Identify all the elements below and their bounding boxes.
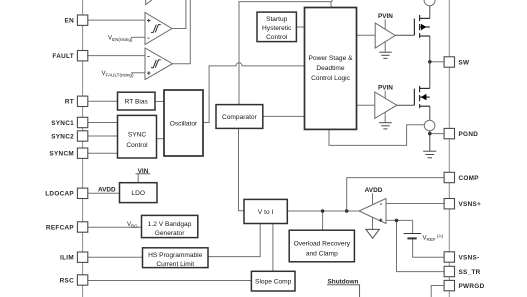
wire SYNCM pin to SYNC Control (88, 152, 118, 154)
wire battery bottom to VSNS- pin (413, 239, 445, 257)
svg-text:SYNC2: SYNC2 (51, 133, 74, 140)
current sense circle low-side (424, 120, 435, 131)
wire RSC pin to Slope Comp (88, 280, 252, 282)
svg-text:Control Logic: Control Logic (311, 75, 351, 82)
block 1.2 V Bandgap Generator (142, 215, 198, 237)
wire low-side driver to ground (384, 112, 386, 123)
svg-text:1.2 V Bandgap: 1.2 V Bandgap (148, 221, 192, 228)
wire high-side source down to SW node (429, 36, 431, 62)
svg-text:SYNC: SYNC (128, 132, 147, 139)
pin square SYNCM (77, 148, 87, 158)
wire Power Stage to high-side driver (357, 34, 376, 36)
svg-text:AVDD: AVDD (98, 187, 116, 194)
wire Comparator bottom to V to I input (239, 128, 245, 210)
block RT Bias (118, 92, 156, 110)
pin square SYNC2 (77, 131, 87, 141)
pin square VSNS+ (444, 199, 454, 209)
svg-text:LDOCAP: LDOCAP (45, 191, 74, 198)
wire ILIM pin to HS current limit (86, 256, 142, 258)
svg-text:VSNS-: VSNS- (459, 254, 480, 261)
pin square LDOCAP (77, 188, 87, 198)
wire amp output node down to Overload Recovery (322, 211, 324, 230)
wire high-side driver to ground (384, 42, 386, 52)
svg-text:FAULT: FAULT (52, 53, 74, 60)
wire low-side drain up to SW node (429, 62, 431, 89)
svg-text:RT Bias: RT Bias (125, 99, 149, 106)
svg-text:Shutdown: Shutdown (328, 279, 359, 286)
svg-text:VFAULT(rising): VFAULT(rising) (102, 71, 134, 78)
pin square VSNS- (444, 252, 454, 262)
wire VREF node down to battery top (412, 220, 414, 233)
svg-text:+: + (379, 218, 383, 225)
wire sense circle to PGND node and ground (429, 131, 431, 151)
wire SYNC Control to Oscillator (157, 138, 165, 140)
wire VEN(rising) to EN comparator - input (131, 36, 145, 38)
wire EN pin to EN comparator + input (88, 19, 145, 21)
wire REFCAP pin to bandgap (VBG net) (88, 226, 142, 228)
svg-text:HS Programmable: HS Programmable (148, 252, 203, 259)
hysteresis symbol EN comparator (151, 25, 161, 33)
wire VIN drop into LDO (137, 174, 139, 183)
junction dot plus input node (395, 219, 399, 223)
svg-text:Overload Recovery: Overload Recovery (294, 240, 351, 247)
low-side gate driver triangle (375, 92, 397, 118)
block SYNC Control (118, 115, 157, 158)
svg-text:REFCAP: REFCAP (46, 224, 75, 231)
wire SYNC2 pin to SYNC Control (88, 135, 118, 137)
svg-text:SYNCM: SYNCM (49, 151, 74, 158)
wire plus node down to SS_TR pin (397, 220, 445, 271)
wire PGND node to PGND pin (430, 133, 444, 135)
wire error amp plus input to VREF node (386, 219, 413, 221)
high-side MOSFET Q1 (414, 15, 429, 38)
svg-text:COMP: COMP (459, 175, 480, 182)
svg-text:Oscillator: Oscillator (170, 120, 198, 127)
ground symbol under high-side driver (379, 52, 392, 58)
current sense circle top (cut off) (424, 0, 435, 6)
wire error amp bottom to analog ground (372, 217, 374, 229)
pin square ILIM (77, 252, 87, 262)
comparator FAULT (hysteretic) (145, 48, 173, 80)
wire Shutdown label underline and drop (327, 285, 360, 297)
block LDO (120, 183, 158, 203)
wire low-side driver output to gate (397, 104, 415, 106)
svg-text:Comparator: Comparator (222, 114, 258, 121)
pin square RSC (77, 275, 87, 285)
wire RT Bias to Oscillator (155, 101, 164, 103)
wire FAULT comparator output up to top edge (173, 0, 191, 64)
wire Startup Hysteretic Control to Power Stage (296, 26, 304, 28)
wire HS current limit to V to I bottom (208, 224, 260, 257)
partial comparator triangle at top edge (146, 0, 152, 5)
pin square SYNC1 (77, 117, 87, 127)
comparator EN (hysteretic) (145, 13, 172, 45)
pin square SW (444, 57, 454, 67)
pin square COMP (444, 172, 454, 182)
hysteresis symbol FAULT comparator (151, 60, 161, 68)
battery symbol VREF (404, 234, 422, 239)
pin square EN (77, 15, 87, 25)
wire VIN label to LDO top (136, 173, 151, 175)
wire VFAULT(rising) to FAULT comparator + input (131, 72, 145, 74)
svg-text:PGND: PGND (459, 131, 479, 138)
svg-text:AVDD: AVDD (365, 187, 383, 194)
junction dot PGND node (428, 132, 432, 136)
svg-text:Generator: Generator (155, 230, 185, 237)
wire current-sense circle to high-side drain (429, 6, 431, 19)
wire SW node to SW pin (430, 61, 444, 63)
wire Power Stage to low-side driver (357, 104, 375, 106)
svg-text:Slope Comp: Slope Comp (255, 279, 292, 286)
wire AVDD label to error amp top (372, 193, 374, 204)
svg-text:VEN(rising): VEN(rising) (108, 36, 133, 43)
wire FAULT pin to FAULT comparator - input (88, 55, 145, 57)
block V to I (244, 199, 287, 223)
pin square PGND (444, 128, 454, 138)
junction dot amp output to COMP (345, 209, 349, 213)
high-side MOSFET body arrow (421, 24, 427, 31)
block HS Programmable Current Limit (143, 248, 209, 268)
pin square RT (77, 96, 87, 106)
svg-text:+: + (147, 70, 151, 77)
svg-text:Power Stage &: Power Stage & (309, 55, 354, 62)
svg-text:SW: SW (459, 59, 471, 66)
wire V to I bottom to Slope Comp top (272, 224, 274, 272)
svg-text:PVIN: PVIN (378, 13, 393, 20)
svg-text:Hysteretic: Hysteretic (262, 25, 292, 32)
wire RT pin to RT Bias (88, 100, 118, 102)
block Comparator (216, 105, 263, 129)
svg-text:RT: RT (65, 99, 74, 106)
svg-text:Deadtime: Deadtime (316, 65, 345, 72)
junction dot amp output to overload (321, 209, 325, 213)
wire Oscillator output up and over to Power Stage (hop over vertical net) (203, 63, 305, 123)
wire SYNC1 pin to SYNC Control (88, 122, 118, 124)
wire Comparator output to Power Stage (263, 115, 305, 117)
wire PWRGD pin down to bottom edge (431, 286, 444, 297)
svg-text:VSNS+: VSNS+ (459, 201, 482, 208)
svg-text:SS_TR: SS_TR (459, 269, 481, 276)
low-side MOSFET Q2 (414, 86, 429, 108)
svg-text:+: + (147, 18, 151, 25)
block Oscillator (164, 90, 203, 156)
wire high-side driver output to gate (395, 34, 414, 36)
low-side MOSFET body arrow (421, 94, 427, 101)
svg-text:Control: Control (126, 142, 148, 149)
svg-text:PWRGD: PWRGD (459, 283, 485, 290)
pin square FAULT (77, 51, 87, 61)
wire from top edge into Power Stage top (331, 0, 333, 8)
high-side gate driver triangle (375, 23, 395, 48)
wire LDOCAP pin to LDO (AVDD net) (88, 192, 120, 194)
block Overload Recovery and Clamp (289, 230, 354, 262)
analog ground triangle under error amp (366, 229, 379, 238)
pin square PWRGD (444, 280, 454, 290)
wire error amp minus input to VSNS+ pin (386, 203, 444, 205)
wire EN comparator output up to top edge (172, 0, 186, 29)
svg-text:and Clamp: and Clamp (306, 250, 338, 257)
wire top net down to Comparator top input (239, 2, 331, 105)
block Startup Hysteretic Control (257, 12, 296, 41)
wire low-side source down to sense circle (429, 106, 431, 120)
svg-text:V to I: V to I (258, 209, 274, 216)
pin square SS_TR (444, 266, 454, 276)
block Power Stage and Deadtime Control Logic (305, 8, 357, 130)
svg-text:Current Limit: Current Limit (156, 261, 194, 268)
error amplifier U1 (359, 199, 386, 224)
svg-text:Startup: Startup (266, 16, 288, 23)
svg-text:ILIM: ILIM (60, 255, 74, 262)
IC right boundary line (448, 0, 450, 297)
pin square REFCAP (77, 222, 87, 232)
svg-text:PVIN: PVIN (378, 85, 393, 92)
wire PVIN label to high-side driver (384, 19, 386, 29)
svg-text:RSC: RSC (60, 277, 74, 284)
svg-text:Control: Control (266, 34, 288, 41)
wire error amp output to V to I (287, 210, 359, 212)
wire PVIN label to low-side driver (384, 91, 386, 99)
IC left boundary line (82, 0, 84, 297)
ground symbol under low-side driver (379, 123, 392, 129)
svg-text:EN: EN (65, 18, 75, 25)
wire COMP net from amp output node to COMP pin (347, 178, 444, 211)
svg-text:LDO: LDO (131, 190, 145, 197)
svg-text:VIN: VIN (138, 168, 149, 175)
svg-text:VBG: VBG (127, 222, 138, 229)
junction dot SW node (428, 60, 432, 64)
block Slope Comp (251, 271, 295, 291)
svg-text:SYNC1: SYNC1 (51, 120, 74, 127)
wire Power Stage bottom to low-side current sense (329, 125, 424, 146)
ground symbol at PGND (423, 151, 436, 158)
